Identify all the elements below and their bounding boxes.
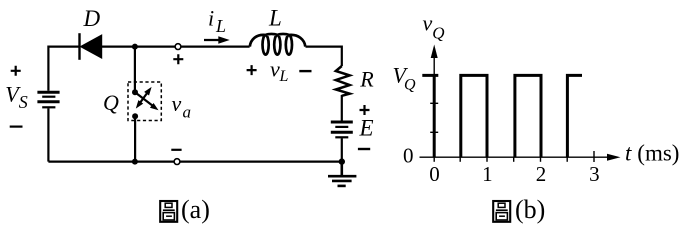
x tick labels (429, 162, 599, 186)
minus sign Vs (10, 125, 23, 127)
svg-text:1: 1 (482, 162, 493, 186)
node bottom right (339, 158, 345, 164)
label vQ axis (423, 10, 445, 42)
svg-text:Q: Q (103, 90, 119, 115)
battery Vs plates (37, 92, 59, 107)
svg-text:L: L (279, 68, 289, 85)
svg-text:D: D (83, 6, 101, 31)
wire top-left from Vs to diode (48, 47, 79, 91)
minus sign vL (299, 70, 311, 72)
resistor R (336, 66, 350, 96)
x axis ticks (434, 151, 594, 162)
plus sign E (360, 105, 370, 115)
svg-text:L: L (268, 5, 282, 30)
switch terminal dot bottom (132, 113, 138, 119)
svg-text:2: 2 (536, 162, 547, 186)
current arrow iL (204, 36, 230, 44)
plus sign near top terminal (173, 54, 183, 64)
plus sign Vs (11, 66, 21, 76)
svg-text:a: a (183, 103, 192, 122)
svg-text:L: L (215, 16, 226, 36)
wire inductor right to resistor corner (306, 47, 342, 66)
y axis tick 1 (430, 131, 438, 133)
plus sign vL (247, 65, 257, 75)
wire diode to junction to inductor (101, 45, 250, 47)
caption 圖 (a) glyph box (160, 201, 177, 222)
label va (172, 91, 192, 122)
svg-text:(b): (b) (515, 195, 545, 224)
node junction bottom (132, 159, 138, 165)
switch terminal dot top (132, 89, 138, 95)
minus sign E (358, 148, 370, 150)
svg-text:Q: Q (432, 24, 444, 43)
label t (ms) (625, 141, 679, 166)
svg-text:v: v (270, 56, 280, 81)
wire resistor to battery E (341, 95, 343, 121)
y axis vQ (433, 56, 435, 157)
svg-text:3: 3 (589, 162, 600, 186)
x axis t (420, 156, 611, 158)
terminal circle bottom (174, 159, 180, 165)
label iL (208, 6, 226, 37)
svg-text:i: i (208, 6, 214, 31)
wire battery E to bottom node (341, 138, 343, 161)
svg-text:0: 0 (429, 162, 440, 186)
svg-text:Q: Q (404, 77, 416, 94)
inductor L (250, 34, 305, 55)
wire bottom (48, 161, 341, 163)
svg-text:v: v (423, 10, 433, 35)
battery E plates (331, 122, 353, 137)
caption 圖 (b) glyph box (493, 201, 510, 222)
minus sign near bottom terminal (171, 149, 181, 151)
wire switch branch lower (134, 116, 136, 161)
ground (328, 162, 356, 186)
y axis tick 2 (430, 102, 438, 104)
svg-text:S: S (19, 92, 28, 112)
svg-text:R: R (359, 66, 374, 91)
svg-text:0: 0 (403, 144, 414, 168)
label VQ level (393, 63, 417, 94)
label Vs (5, 82, 28, 112)
waveform vQ (422, 75, 582, 157)
svg-text:(a): (a) (181, 195, 210, 224)
wire switch branch upper (134, 47, 136, 92)
svg-text:t: t (625, 141, 632, 166)
svg-text:v: v (172, 91, 182, 116)
switch Q dashed box (128, 82, 161, 121)
diode D (80, 33, 102, 60)
wire left bottom from Vs down (47, 108, 49, 161)
switch arrow double (136, 87, 152, 109)
label vL (270, 56, 289, 85)
svg-text:E: E (359, 116, 374, 141)
svg-text:(ms): (ms) (637, 141, 679, 166)
node junction top (132, 44, 138, 50)
switch arrow single (135, 92, 159, 110)
terminal circle top (175, 44, 181, 50)
